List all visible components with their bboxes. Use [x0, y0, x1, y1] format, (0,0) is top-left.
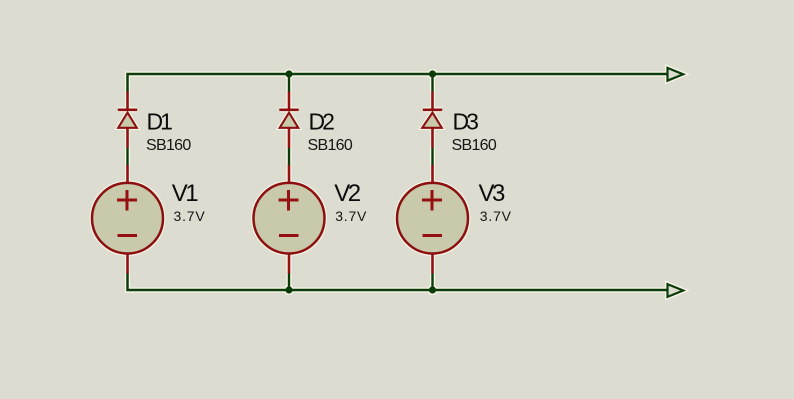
diode D2 — [279, 92, 298, 149]
svg-text:SB160: SB160 — [146, 137, 191, 154]
svg-text:V2: V2 — [334, 180, 361, 207]
svg-text:3.7V: 3.7V — [480, 208, 512, 224]
battery V3 — [397, 165, 468, 274]
output terminal arrow top right — [668, 68, 684, 81]
svg-text:D2: D2 — [309, 108, 335, 134]
wire bottom rail (corner below V1 to output arrow) — [128, 273, 668, 291]
battery V1 — [92, 165, 163, 274]
output terminal arrow bottom right — [668, 284, 684, 297]
junction dot bottom rail V2 column — [285, 286, 292, 293]
svg-text:3.7V: 3.7V — [174, 208, 206, 224]
wire top rail (corner above D1 to output arrow) — [128, 74, 668, 93]
diode D3 — [422, 92, 442, 149]
svg-text:SB160: SB160 — [308, 137, 353, 154]
svg-text:V3: V3 — [479, 180, 506, 207]
svg-text:D3: D3 — [453, 108, 479, 134]
diode D1 — [118, 92, 137, 149]
wire D3 cathode to V3 plus — [431, 147, 433, 166]
wire D1 cathode to V1 plus — [126, 147, 128, 166]
svg-text:V1: V1 — [172, 180, 199, 207]
wire V2 minus to bottom rail — [288, 273, 290, 291]
junction dot bottom rail V3 column — [429, 286, 436, 293]
wire top rail to D3 anode — [431, 74, 433, 93]
junction dot top rail V2 column — [285, 70, 292, 77]
wire top rail to D2 anode — [288, 74, 290, 93]
battery V2 — [254, 165, 325, 274]
wire D2 cathode to V2 plus — [288, 147, 290, 166]
wire V3 minus to bottom rail — [431, 273, 433, 291]
svg-text:3.7V: 3.7V — [335, 208, 367, 224]
junction dot top rail V3 column — [429, 70, 436, 77]
svg-text:SB160: SB160 — [452, 137, 497, 154]
svg-text:D1: D1 — [147, 108, 173, 134]
